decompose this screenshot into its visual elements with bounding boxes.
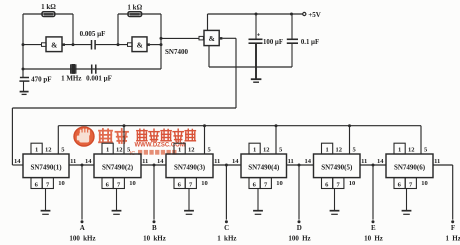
svg-text:12: 12 bbox=[188, 147, 195, 154]
svg-text:11: 11 bbox=[142, 158, 148, 165]
svg-text:10: 10 bbox=[421, 180, 428, 187]
svg-text:100 µF: 100 µF bbox=[263, 39, 283, 46]
svg-text:F: F bbox=[451, 224, 455, 232]
svg-text:C: C bbox=[224, 224, 229, 232]
svg-text:10: 10 bbox=[276, 180, 283, 187]
svg-text:1: 1 bbox=[325, 147, 328, 154]
svg-text:SN7400: SN7400 bbox=[165, 48, 188, 56]
svg-text:SN7490(6): SN7490(6) bbox=[394, 163, 426, 171]
svg-text:10: 10 bbox=[349, 180, 356, 187]
svg-text:12: 12 bbox=[263, 147, 270, 154]
svg-text:10: 10 bbox=[201, 180, 208, 187]
svg-text:SN7490(2): SN7490(2) bbox=[102, 163, 134, 171]
svg-text:B: B bbox=[152, 224, 157, 232]
svg-text:SN7490(5): SN7490(5) bbox=[321, 163, 353, 171]
svg-text:1: 1 bbox=[106, 147, 109, 154]
svg-text:14: 14 bbox=[304, 158, 311, 165]
svg-text:11: 11 bbox=[361, 158, 367, 165]
svg-text:&: & bbox=[51, 40, 57, 49]
svg-text:0.005 µF: 0.005 µF bbox=[80, 30, 106, 38]
svg-text:14: 14 bbox=[377, 158, 384, 165]
svg-text:+5V: +5V bbox=[308, 11, 321, 19]
svg-text:SN7490(3): SN7490(3) bbox=[174, 163, 206, 171]
svg-text:1 kHz: 1 kHz bbox=[217, 234, 236, 242]
svg-text:1 kΩ: 1 kΩ bbox=[127, 4, 142, 12]
svg-text:11: 11 bbox=[214, 158, 220, 165]
svg-text:14: 14 bbox=[14, 158, 21, 165]
svg-text:10 Hz: 10 Hz bbox=[364, 234, 383, 242]
svg-text:11: 11 bbox=[288, 158, 294, 165]
svg-text:14: 14 bbox=[157, 158, 164, 165]
svg-text:&: & bbox=[209, 34, 215, 43]
svg-text:10 kHz: 10 kHz bbox=[143, 234, 166, 242]
svg-text:14: 14 bbox=[232, 158, 239, 165]
svg-text:11: 11 bbox=[434, 158, 440, 165]
svg-text:12: 12 bbox=[116, 147, 123, 154]
svg-text:E: E bbox=[371, 224, 376, 232]
svg-text:11: 11 bbox=[70, 158, 76, 165]
svg-text:+: + bbox=[257, 33, 260, 39]
svg-text:100 kHz: 100 kHz bbox=[69, 234, 95, 242]
svg-text:470 pF: 470 pF bbox=[31, 76, 51, 84]
svg-text:1 kΩ: 1 kΩ bbox=[41, 3, 56, 11]
svg-text:10: 10 bbox=[129, 180, 136, 187]
svg-text:SN7490(4): SN7490(4) bbox=[248, 163, 280, 171]
svg-text:1: 1 bbox=[253, 147, 256, 154]
svg-text:12: 12 bbox=[45, 147, 52, 154]
svg-text:12: 12 bbox=[408, 147, 415, 154]
svg-text:100 Hz: 100 Hz bbox=[288, 234, 310, 242]
svg-text:1 MHz: 1 MHz bbox=[61, 75, 81, 83]
svg-text:1: 1 bbox=[398, 147, 401, 154]
svg-text:10: 10 bbox=[58, 180, 65, 187]
svg-text:14: 14 bbox=[85, 158, 92, 165]
svg-text:SN7490(1): SN7490(1) bbox=[30, 163, 62, 171]
svg-text:1 Hz: 1 Hz bbox=[446, 234, 460, 242]
svg-text:A: A bbox=[80, 224, 85, 232]
svg-text:D: D bbox=[297, 224, 302, 232]
svg-text:12: 12 bbox=[336, 147, 343, 154]
svg-text:0.1 µF: 0.1 µF bbox=[301, 39, 319, 46]
svg-text:1: 1 bbox=[178, 147, 181, 154]
svg-text:0.001 µF: 0.001 µF bbox=[86, 75, 112, 83]
svg-text:&: & bbox=[137, 40, 143, 49]
svg-text:1: 1 bbox=[35, 147, 38, 154]
